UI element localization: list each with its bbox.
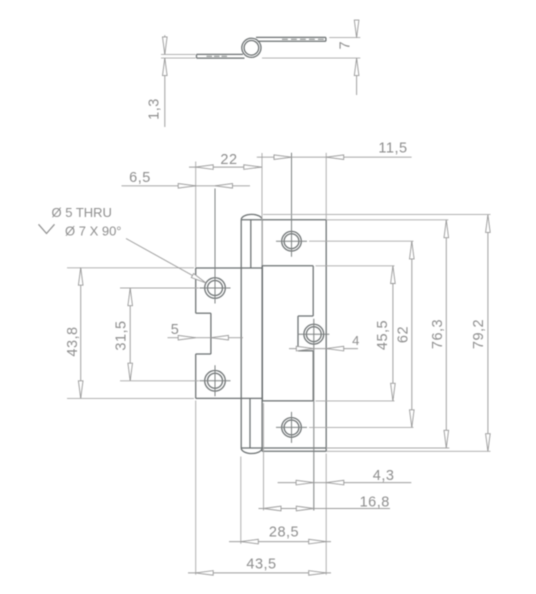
lower leaf serration marks	[207, 55, 213, 57]
svg-text:79,2: 79,2	[471, 319, 487, 349]
svg-text:11,5: 11,5	[378, 141, 407, 157]
dimension 62	[309, 240, 414, 242]
right leaf outline	[241, 219, 326, 221]
dimension 6,5	[122, 185, 251, 187]
dimension 22	[195, 162, 197, 268]
dimension 43,5	[195, 401, 197, 575]
inner raised plate	[262, 265, 313, 267]
dimension 4 (hole to edge)	[289, 348, 358, 350]
svg-text:Ø 5 THRU: Ø 5 THRU	[52, 205, 112, 220]
dimension 31,5	[120, 287, 199, 289]
pin bottom dome	[241, 448, 262, 454]
dimension 43,8	[67, 267, 194, 269]
svg-text:5: 5	[171, 322, 180, 338]
svg-text:45,5: 45,5	[375, 320, 391, 350]
countersunk hole D (right leaf bottom)	[282, 418, 302, 438]
dimension 76,3	[326, 219, 448, 221]
svg-text:4,3: 4,3	[373, 468, 395, 484]
side view: upper leaf	[256, 36, 326, 38]
dimension 16,8	[263, 403, 265, 511]
svg-text:28,5: 28,5	[269, 525, 299, 541]
left leaf notch	[196, 312, 211, 314]
knuckle circle inner	[244, 41, 259, 56]
svg-text:62: 62	[395, 326, 411, 343]
countersink symbol	[39, 224, 55, 233]
dimension 79,2	[263, 213, 491, 215]
countersunk hole B (left leaf bottom)	[205, 371, 226, 392]
left leaf outline	[196, 267, 263, 269]
side view: lower leaf	[197, 53, 244, 55]
dimension 7 (leaf stack thickness)	[329, 37, 360, 39]
countersunk hole C (right leaf top)	[282, 231, 302, 251]
dimension 4,3	[325, 454, 327, 575]
svg-text:4: 4	[352, 333, 360, 348]
upper leaf serration marks	[282, 38, 288, 40]
svg-text:7: 7	[338, 41, 354, 50]
svg-text:Ø 7 X 90°: Ø 7 X 90°	[65, 224, 122, 239]
svg-text:16,8: 16,8	[360, 494, 390, 510]
side hole E (inner plate)	[304, 324, 324, 344]
hinge pin / knuckle strip	[240, 220, 242, 448]
dimension 5 (left notch depth)	[168, 337, 244, 339]
countersunk hole A (left leaf top)	[205, 278, 226, 299]
svg-text:22: 22	[220, 152, 237, 168]
pin top dome	[241, 214, 262, 219]
dimension 11,5	[325, 153, 327, 220]
dimension 28,5	[240, 457, 242, 544]
svg-text:43,5: 43,5	[246, 556, 276, 572]
svg-text:6,5: 6,5	[129, 170, 151, 186]
dimension 45,5	[316, 265, 395, 267]
callout leader	[126, 239, 206, 284]
svg-text:1,3: 1,3	[147, 98, 163, 120]
svg-text:76,3: 76,3	[430, 319, 446, 349]
knuckle circle outer	[242, 38, 261, 57]
svg-text:31,5: 31,5	[114, 320, 130, 350]
dimension 1,3 (leaf thickness)	[161, 53, 196, 55]
svg-text:43,8: 43,8	[65, 326, 81, 356]
inner plate notch	[298, 315, 313, 317]
